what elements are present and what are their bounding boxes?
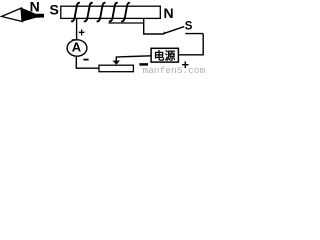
switch lever (164, 27, 184, 34)
ammeter A (67, 40, 87, 56)
rheostat slider stem + wire to battery (116, 56, 151, 62)
svg-text:电源: 电源 (154, 48, 176, 62)
svg-text:+: + (182, 57, 190, 72)
compass needle (white S half) (2, 8, 23, 22)
wire solenoid right lead down to switch (144, 19, 165, 35)
label - (battery left) (139, 63, 148, 66)
switch right wire (185, 33, 203, 35)
svg-text:manfen5.com: manfen5.com (143, 65, 206, 74)
svg-text:N: N (164, 5, 174, 21)
rheostat body (99, 65, 133, 72)
coil winding 5 (122, 3, 129, 22)
svg-text:S: S (185, 20, 193, 32)
battery box (151, 48, 178, 62)
label - (ammeter) (83, 59, 88, 61)
svg-text:+: + (78, 28, 85, 40)
switch left contact nub (163, 32, 165, 34)
coil winding 3 (97, 3, 104, 22)
coil return wire (109, 22, 144, 24)
ammeter top terminal tick (72, 39, 78, 41)
wire ammeter down and right to rheostat (76, 56, 99, 68)
coil winding 1 (72, 3, 79, 22)
solenoid body (61, 6, 161, 18)
rheostat slider arrowhead (113, 61, 120, 65)
svg-text:S: S (50, 1, 59, 17)
compass needle (black N half) (21, 8, 44, 21)
wire solenoid left lead down to ammeter (76, 19, 78, 41)
wire battery right side up to switch (178, 34, 203, 55)
coil winding 4 (110, 3, 117, 22)
coil winding 2 (85, 3, 92, 22)
svg-text:A: A (72, 40, 82, 55)
svg-text:N: N (30, 0, 40, 15)
